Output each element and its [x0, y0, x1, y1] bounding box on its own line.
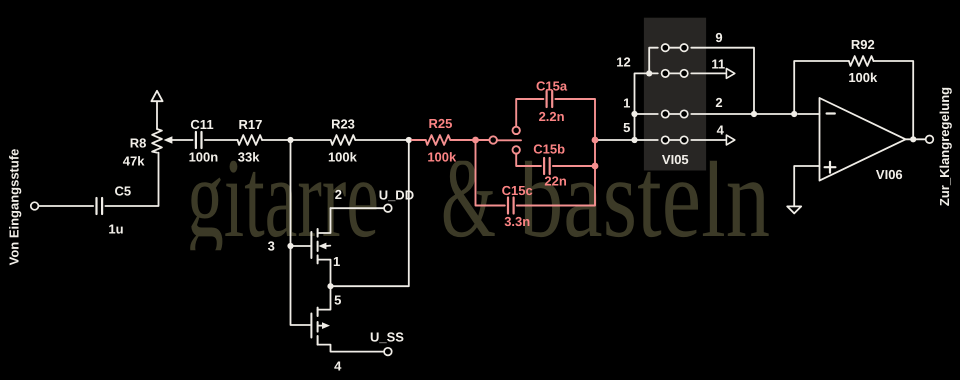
- svg-text:100k: 100k: [427, 150, 457, 165]
- svg-text:5: 5: [334, 293, 341, 308]
- svg-text:R25: R25: [428, 116, 452, 131]
- svg-text:2.2n: 2.2n: [539, 109, 565, 124]
- svg-text:12: 12: [616, 55, 630, 70]
- svg-text:33k: 33k: [238, 149, 260, 164]
- svg-text:4: 4: [334, 359, 342, 374]
- svg-text:3: 3: [268, 239, 275, 254]
- svg-text:1: 1: [623, 96, 630, 111]
- svg-text:100k: 100k: [848, 70, 878, 85]
- svg-text:U_SS: U_SS: [370, 329, 404, 344]
- svg-text:1: 1: [333, 254, 340, 269]
- svg-text:C15a: C15a: [536, 79, 568, 94]
- svg-text:2: 2: [715, 95, 722, 110]
- svg-text:R92: R92: [851, 37, 875, 52]
- svg-text:Zur_Klangregelung: Zur_Klangregelung: [937, 87, 952, 206]
- svg-text:Von Eingangsstufe: Von Eingangsstufe: [7, 149, 22, 266]
- svg-text:100n: 100n: [189, 149, 219, 164]
- svg-text:11: 11: [711, 57, 725, 72]
- svg-text:VI06: VI06: [876, 167, 903, 182]
- svg-text:9: 9: [715, 30, 722, 45]
- svg-text:C15b: C15b: [533, 142, 565, 157]
- svg-text:R8: R8: [130, 136, 147, 151]
- svg-text:C11: C11: [190, 117, 213, 132]
- svg-text:C5: C5: [114, 183, 131, 198]
- svg-text:R17: R17: [238, 117, 262, 132]
- svg-text:2: 2: [335, 187, 342, 202]
- svg-text:R23: R23: [331, 117, 355, 132]
- svg-text:1u: 1u: [108, 221, 123, 236]
- svg-text:VI05: VI05: [662, 152, 689, 167]
- svg-text:C15c: C15c: [502, 183, 533, 198]
- svg-text:22n: 22n: [544, 174, 566, 189]
- svg-text:3.3n: 3.3n: [504, 214, 530, 229]
- svg-text:47k: 47k: [123, 154, 145, 169]
- svg-text:4: 4: [717, 122, 725, 137]
- svg-text:100k: 100k: [328, 150, 358, 165]
- svg-text:U_DD: U_DD: [379, 188, 414, 203]
- svg-text:5: 5: [623, 120, 630, 135]
